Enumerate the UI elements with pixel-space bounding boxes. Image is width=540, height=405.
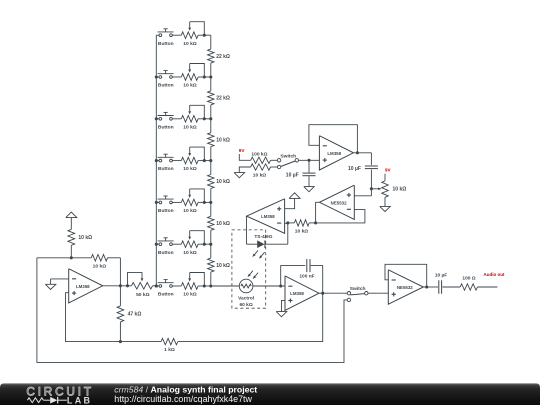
button SW6 xyxy=(156,238,173,256)
footer bar xyxy=(0,383,540,405)
svg-text:10 kΩ: 10 kΩ xyxy=(216,137,230,143)
wire U3 plus input xyxy=(354,195,371,197)
svg-text:Audio out: Audio out xyxy=(484,272,505,277)
wire U4 minus input xyxy=(285,222,288,224)
svg-text:10 kΩ: 10 kΩ xyxy=(253,172,267,178)
wire out down to cap2 xyxy=(370,153,372,165)
wire C3 to out xyxy=(310,266,323,294)
svg-text:http://circuitlab.com/cqahyfxk: http://circuitlab.com/cqahyfxk4e7tw xyxy=(114,394,252,404)
svg-text:10 µF: 10 µF xyxy=(286,173,299,179)
resistor 10k R8 feedback xyxy=(91,255,107,270)
resistor 10k chain R3 xyxy=(208,119,230,161)
switch SW9 SPDT xyxy=(347,286,368,302)
svg-text:10 kΩ: 10 kΩ xyxy=(295,229,309,235)
potentiometer 50k P8 xyxy=(128,272,157,298)
svg-text:Button: Button xyxy=(158,250,174,256)
junction right bus row2 xyxy=(209,75,212,78)
svg-text:Switch: Switch xyxy=(280,153,296,159)
footer title text xyxy=(114,385,257,404)
wire U6 feedback xyxy=(385,264,427,287)
wire U3 minus feedback xyxy=(316,210,365,223)
resistor 100ohm R14 xyxy=(460,276,477,291)
wire feedback top xyxy=(37,257,121,259)
junction U1 out fb xyxy=(119,284,122,287)
potentiometer 10k P1 xyxy=(172,22,211,47)
potentiometer 10k P4 xyxy=(172,147,211,172)
svg-text:NE5532: NE5532 xyxy=(397,285,413,290)
wire U6 output xyxy=(423,286,438,288)
button SW4 xyxy=(156,154,173,172)
resistor 47k R9 xyxy=(117,306,141,322)
button SW1 xyxy=(156,29,173,47)
svg-text:9V: 9V xyxy=(239,148,246,153)
svg-text:10 kΩ: 10 kΩ xyxy=(183,208,197,214)
switch SW8 SPDT xyxy=(277,153,298,168)
junction left bus row7 xyxy=(155,284,158,287)
svg-text:LAB: LAB xyxy=(67,395,92,405)
resistor 100k R11 xyxy=(251,151,278,163)
power VCC1 9V arrow xyxy=(66,212,77,229)
junction right bus row6 xyxy=(209,243,212,246)
svg-text:100 kΩ: 100 kΩ xyxy=(251,151,267,157)
svg-text:10 kΩ: 10 kΩ xyxy=(216,179,230,185)
svg-text:10 kΩ: 10 kΩ xyxy=(216,263,230,269)
svg-text:TS-4/9G: TS-4/9G xyxy=(254,234,272,240)
wire bottom feedback xyxy=(178,293,323,341)
resistor 10k chain R5 xyxy=(208,202,230,244)
junction U5 fb node xyxy=(279,284,282,287)
wire U1 minus input xyxy=(51,279,69,284)
wire U2 output xyxy=(353,152,371,154)
svg-text:Button: Button xyxy=(158,41,174,47)
wire 9V stub xyxy=(239,154,250,160)
wire row7 to LDR xyxy=(211,285,240,287)
wire U3 output xyxy=(316,202,320,223)
LED D1 TS-4/9G xyxy=(252,240,265,258)
wire LED loop xyxy=(247,216,288,244)
ground GND2 xyxy=(234,173,245,178)
capacitor C4 10uF xyxy=(435,272,447,294)
svg-text:47 kΩ: 47 kΩ xyxy=(128,312,142,318)
svg-text:10 kΩ: 10 kΩ xyxy=(183,124,197,130)
svg-text:1 kΩ: 1 kΩ xyxy=(164,347,175,353)
junction left bus row5 xyxy=(155,201,158,204)
junction U3 out xyxy=(314,221,317,224)
wire C4 to R14 xyxy=(442,286,460,288)
svg-text:Button: Button xyxy=(158,208,174,214)
capacitor C1 10uF xyxy=(286,160,316,186)
svg-text:60 kΩ: 60 kΩ xyxy=(240,302,253,308)
wire audio out xyxy=(477,286,497,288)
svg-text:9V: 9V xyxy=(385,168,392,173)
capacitor C3 100nF xyxy=(299,259,314,279)
wire LDR to U5 xyxy=(253,285,285,287)
wire output node vertical xyxy=(119,258,121,342)
svg-text:LM358: LM358 xyxy=(261,214,275,219)
button SW3 xyxy=(156,112,173,130)
svg-text:22 kΩ: 22 kΩ xyxy=(216,96,230,102)
resistor 22k chain R2 xyxy=(208,77,230,119)
svg-text:Vactrol: Vactrol xyxy=(238,296,254,302)
button SW2 xyxy=(156,71,173,89)
svg-text:Button: Button xyxy=(158,83,174,89)
svg-text:Button: Button xyxy=(158,166,174,172)
junction node fb-vcc xyxy=(70,256,73,259)
supply 9V label V1 xyxy=(239,148,246,153)
CircuitLab logo xyxy=(26,384,93,405)
junction right bus row4 xyxy=(209,159,212,162)
junction U6 out xyxy=(425,285,428,288)
power VCC2 arrow xyxy=(289,193,300,199)
junction U5 out xyxy=(321,292,324,295)
junction U2 out xyxy=(356,151,359,154)
potentiometer 10k P9 xyxy=(371,174,406,207)
svg-text:10 kΩ: 10 kΩ xyxy=(216,221,230,227)
junction right bus row3 xyxy=(209,117,212,120)
junction cap1 node xyxy=(307,159,310,162)
svg-text:10 kΩ: 10 kΩ xyxy=(183,83,197,89)
svg-text:10 kΩ: 10 kΩ xyxy=(393,186,407,192)
svg-text:100 nF: 100 nF xyxy=(299,273,314,279)
potentiometer 10k P7 xyxy=(172,273,211,298)
ground GND4 xyxy=(380,206,390,211)
svg-text:Button: Button xyxy=(158,292,174,298)
svg-text:10 µF: 10 µF xyxy=(435,272,447,278)
junction right bus row7 xyxy=(209,284,212,287)
potentiometer 10k P5 xyxy=(172,189,211,214)
svg-text:10 kΩ: 10 kΩ xyxy=(183,166,197,172)
resistor 10k chain R4 xyxy=(208,161,230,203)
wire U5 output xyxy=(319,292,348,294)
svg-text:10 µF: 10 µF xyxy=(348,166,361,172)
svg-text:LM358: LM358 xyxy=(290,291,304,296)
op-amp U3 NE5532 xyxy=(320,185,355,219)
ground GND5 xyxy=(276,312,287,317)
potentiometer 10k P6 xyxy=(172,231,211,256)
svg-text:10 kΩ: 10 kΩ xyxy=(183,41,197,47)
svg-text:10 kΩ: 10 kΩ xyxy=(183,250,197,256)
junction 47k bottom xyxy=(119,340,122,343)
op-amp U5 LM358 xyxy=(285,276,319,311)
op-amp U1 LM358 xyxy=(69,269,103,303)
junction wiper node xyxy=(370,187,373,190)
svg-text:10 kΩ: 10 kΩ xyxy=(183,292,197,298)
wire U5 plus gnd xyxy=(282,300,286,311)
wire U1 output xyxy=(103,285,132,287)
svg-text:10 kΩ: 10 kΩ xyxy=(93,263,107,269)
wire U5 feedback xyxy=(281,266,306,286)
wire U1 plus input xyxy=(66,293,162,342)
wire gnd stub 10k xyxy=(239,167,250,173)
photoresistor LDR1 Vactrol 60k xyxy=(238,271,258,309)
ground GND1 xyxy=(45,284,56,289)
wire left button bus xyxy=(155,35,157,286)
op-amp U4 LM358 xyxy=(247,199,285,234)
svg-text:NE5532: NE5532 xyxy=(331,200,347,205)
resistor 10k chain R6 xyxy=(208,244,230,286)
junction U4 minus xyxy=(286,221,289,224)
supply 9V label V2 xyxy=(385,168,392,173)
wire U2 feedback xyxy=(309,125,358,153)
svg-text:Button: Button xyxy=(158,124,174,130)
ground GND3 xyxy=(304,187,314,192)
junction left bus row6 xyxy=(155,243,158,246)
junction pot2 left xyxy=(126,284,129,287)
label Audio out xyxy=(484,272,505,277)
wire outer loop xyxy=(37,258,347,363)
svg-text:100 Ω: 100 Ω xyxy=(462,276,475,282)
svg-text:LM358: LM358 xyxy=(76,284,90,289)
potentiometer 10k P2 xyxy=(172,64,211,89)
potentiometer 10k P3 xyxy=(172,105,211,130)
junction left bus row4 xyxy=(155,159,158,162)
op-amp U2 LM358 xyxy=(319,136,353,170)
resistor 10k R13 xyxy=(288,220,316,235)
resistor 22k chain R1 xyxy=(208,35,230,77)
svg-text:50 kΩ: 50 kΩ xyxy=(136,292,150,298)
button SW5 xyxy=(156,196,173,214)
wire cap2 to wiper node xyxy=(370,170,372,196)
svg-text:10 kΩ: 10 kΩ xyxy=(78,235,92,241)
resistor 10k R12 xyxy=(251,164,278,179)
op-amp U6 NE5532 xyxy=(388,270,423,304)
wire switch common to U2 xyxy=(299,159,320,161)
resistor 10k R7 xyxy=(68,229,92,257)
svg-text:LM358: LM358 xyxy=(327,151,341,156)
svg-text:Switch: Switch xyxy=(350,286,366,292)
wire U4 plus to VCC xyxy=(285,198,295,208)
resistor 1k R10 xyxy=(161,338,178,353)
junction left bus row2 xyxy=(155,75,158,78)
svg-text:22 kΩ: 22 kΩ xyxy=(216,54,230,60)
label TS-4/9G xyxy=(254,234,272,240)
button SW7 xyxy=(156,280,173,298)
capacitor C2 10uF xyxy=(348,166,378,172)
junction row7 left bus xyxy=(155,284,158,287)
junction right bus row5 xyxy=(209,201,212,204)
optocoupler dashed box xyxy=(232,230,266,308)
wire switch to U6 xyxy=(368,292,388,294)
junction left bus row3 xyxy=(155,117,158,120)
